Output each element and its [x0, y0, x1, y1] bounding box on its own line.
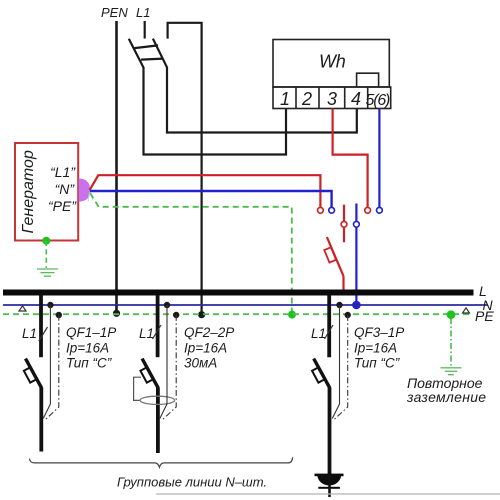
wire QF1 PE drop dashed [45, 315, 59, 421]
svg-text:L1: L1 [139, 326, 154, 341]
wire PEN input [115, 21, 118, 313]
svg-text:“PE”: “PE” [48, 198, 77, 214]
svg-text:Iр=16А: Iр=16А [66, 341, 109, 356]
breaker QF2 blade [142, 359, 158, 388]
svg-text:QF3–1P: QF3–1P [354, 325, 404, 340]
wire L1 input stub [144, 21, 146, 39]
svg-text:заземление: заземление [406, 389, 486, 405]
wire Wh terminal 5 N-out blue [378, 109, 380, 208]
svg-text:Генератор: Генератор [20, 150, 37, 233]
brace group lines [30, 457, 293, 467]
phase slash QF1 [39, 327, 48, 341]
svg-text:4: 4 [351, 89, 361, 109]
breaker QF2 upper lead [156, 295, 160, 357]
junction bracket wire to PE bus [198, 311, 205, 318]
lamp symbol [315, 474, 344, 489]
repeated earthing dash-dot [450, 318, 452, 366]
main breaker QF red [324, 237, 343, 290]
phase slash QF2 [153, 325, 162, 339]
wire QF2 N drop [160, 305, 167, 419]
svg-text:Тип “С”: Тип “С” [354, 356, 400, 371]
svg-text:Iр=16А: Iр=16А [354, 341, 397, 356]
svg-text:Wh: Wh [319, 52, 346, 72]
svg-text:“L1”: “L1” [50, 164, 76, 180]
meter Wh box [273, 40, 391, 109]
wire QF3 PE drop dashed [333, 315, 348, 421]
breaker QF2 release rect [140, 367, 153, 382]
svg-text:QF2–2P: QF2–2P [184, 325, 234, 340]
bottom frame line [156, 493, 500, 495]
junction QF1 PE tap [56, 312, 62, 318]
phase slash QF3 [325, 325, 334, 339]
lamp lead bottom [328, 474, 331, 497]
svg-text:30мА: 30мА [184, 356, 217, 371]
generator earth dot [42, 237, 50, 245]
wire QF3 N drop [332, 305, 339, 419]
breaker QF1 lower lead [39, 388, 43, 452]
svg-text:“N”: “N” [55, 181, 76, 197]
svg-text:5(6): 5(6) [366, 92, 391, 109]
generator box [15, 143, 78, 241]
junction N-out to N bus [352, 301, 361, 310]
bus L [3, 290, 474, 296]
junction QF2 PE tap [173, 312, 179, 318]
junction QF2 N tap [164, 302, 170, 308]
wire generator PE green dashed [90, 193, 292, 311]
svg-text:PE: PE [475, 308, 494, 324]
earth symbol generator [37, 269, 58, 276]
earth symbol repeated [441, 368, 462, 375]
junction PEN to PE bus [113, 310, 120, 317]
junction QF3 N tap [336, 302, 342, 308]
wire Wh terminal 3 L-out red [333, 109, 368, 208]
contact circle meter N [377, 207, 383, 213]
breaker QF2 lower lead [156, 388, 160, 454]
RCD hook QF2 [134, 377, 141, 400]
wire QF2 PE drop dashed [162, 315, 177, 421]
RCD ellipse QF2 [140, 396, 175, 404]
breaker QF3 release rect [312, 367, 325, 382]
junction QF3 PE tap [345, 312, 351, 318]
breaker QF3 lower lead [328, 388, 332, 475]
svg-text:PEN: PEN [101, 5, 128, 20]
breaker QF3 blade [314, 359, 330, 388]
wire generator N blue [90, 191, 332, 207]
breaker QF1 blade [26, 359, 42, 388]
disconnect switch QS 2-pole [129, 39, 167, 68]
junction PE repeated earthing [447, 310, 456, 319]
junction gen PE to PE bus [288, 311, 296, 319]
wire generator earth dashed [45, 241, 47, 268]
bus N [3, 304, 488, 306]
generator plug connector [79, 178, 90, 201]
wire switch left pole to Wh terminal 1 [144, 67, 287, 155]
bus PE dashed [3, 313, 470, 315]
svg-text:L1: L1 [311, 326, 326, 341]
svg-text:2: 2 [301, 89, 312, 109]
wire QF1 N drop [43, 305, 50, 419]
wire switch right pole top to PE via top bracket [168, 23, 202, 313]
svg-text:L1: L1 [22, 326, 37, 341]
insulator triangle right [463, 308, 470, 313]
contact circle gen L [318, 207, 324, 213]
wire switch right pole to Wh terminal 4 [167, 67, 357, 133]
junction QF1 N tap [47, 302, 53, 308]
breaker QF1 upper lead [39, 295, 43, 357]
svg-text:1: 1 [280, 89, 290, 109]
breaker QF3 upper lead [327, 295, 331, 357]
svg-text:Групповые линии N–шт.: Групповые линии N–шт. [117, 475, 267, 490]
svg-text:L1: L1 [136, 5, 150, 20]
svg-text:QF1–1P: QF1–1P [66, 325, 116, 340]
svg-text:Тип “С”: Тип “С” [66, 356, 112, 371]
breaker QF1 release rect [24, 367, 37, 382]
insulator triangle left [19, 306, 26, 311]
changeover common L contact red [343, 205, 345, 222]
svg-text:Iр=16А: Iр=16А [184, 341, 227, 356]
wire generator L1 red [90, 175, 321, 207]
changeover common N contact blue [355, 204, 357, 302]
contact circle meter L [365, 207, 371, 213]
bridge terminal 4 to 5(6) [357, 73, 379, 87]
svg-text:3: 3 [327, 89, 337, 109]
contact circle gen N [329, 207, 335, 213]
